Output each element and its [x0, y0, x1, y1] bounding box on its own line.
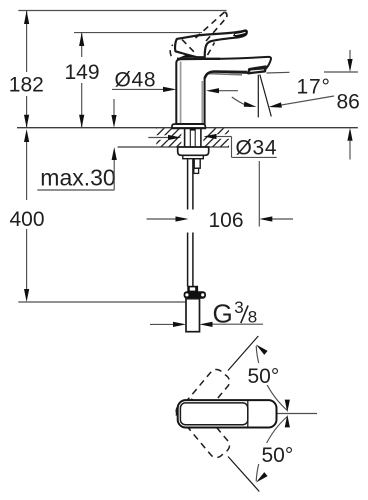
svg-text:Ø34: Ø34 — [236, 137, 278, 160]
svg-text:max.30: max.30 — [40, 165, 115, 191]
dim 48 leader with arrow right — [112, 87, 176, 92]
svg-text:8: 8 — [248, 307, 257, 326]
countertop surface line — [17, 127, 358, 129]
under-head shadow wedge — [179, 55, 197, 58]
plan view rotation arc lower — [256, 415, 290, 483]
lever tip highlight — [235, 32, 245, 34]
svg-text:86: 86 — [337, 91, 360, 114]
svg-text:50°: 50° — [262, 444, 294, 467]
label 50 degrees upper — [246, 363, 281, 388]
17 degree arc with arrow — [232, 97, 257, 107]
dimension 149 vertical line — [79, 33, 84, 128]
svg-text:Ø48: Ø48 — [115, 69, 157, 92]
hose end connector black collar — [184, 286, 206, 299]
plan view upper 50 degree ray — [228, 336, 258, 371]
mounting nut — [178, 147, 209, 155]
solid handle plan view — [178, 400, 277, 427]
max.30 dimension arrows — [111, 99, 116, 190]
spout underside accent — [205, 72, 247, 79]
supply hose upper segment — [188, 159, 193, 210]
dimension 106 left arrow — [147, 216, 189, 221]
G 3/8 dimension arrows — [150, 322, 263, 327]
mounting base plate — [172, 124, 205, 128]
17 degree leader with arrow — [269, 96, 334, 108]
svg-text:3: 3 — [234, 298, 243, 317]
aerator — [248, 67, 266, 74]
dashed lever open position — [170, 12, 227, 56]
lever tip dark fill — [233, 31, 247, 38]
svg-text:149: 149 — [65, 61, 100, 84]
svg-text:182: 182 — [9, 74, 44, 97]
supply hose lower segment — [188, 233, 193, 287]
dimension 106 right arrow — [259, 161, 293, 227]
dim 34 left arrow — [148, 135, 181, 140]
svg-text:106: 106 — [209, 209, 244, 232]
svg-text:400: 400 — [10, 208, 45, 231]
extension line bottom (400 level) — [18, 301, 186, 303]
hatched counter section left — [137, 128, 196, 148]
dim 34 right arrow and leader — [203, 134, 276, 158]
G 3/8 threaded end tube — [186, 299, 200, 332]
extension line lever top (149 level) — [74, 32, 202, 34]
svg-text:50°: 50° — [248, 365, 280, 388]
dimension 400 vertical line — [24, 129, 29, 302]
extension line top (182 level) — [18, 10, 226, 12]
body shading lines — [181, 62, 242, 124]
plan view rotation arc upper — [256, 345, 290, 413]
hatched counter section right — [196, 128, 247, 148]
17 degree vertical reference line — [257, 75, 259, 118]
lever solid — [175, 31, 247, 58]
dashed handle rotated down 50 — [173, 396, 232, 460]
dashed handle rotated up 50 — [173, 367, 232, 431]
label G 3/8 — [213, 298, 258, 329]
max.30 leader underline — [37, 189, 114, 191]
17 degree slanted spray line — [260, 75, 272, 117]
dim 48 right arrow — [206, 88, 238, 93]
cartridge cap line — [177, 58, 220, 60]
faucet body and spout outline — [176, 57, 271, 124]
second hose stub — [194, 159, 200, 174]
dimension 86 upper extension segments — [267, 72, 359, 73]
nut lower collar — [183, 155, 204, 158]
threaded shank through counter — [185, 128, 201, 147]
dimension 182 vertical line — [24, 11, 29, 128]
svg-text:G: G — [213, 299, 233, 329]
dimension 86 arrows — [347, 50, 352, 160]
handle axis extension line — [277, 413, 318, 415]
plan view lower 50 degree ray — [228, 457, 259, 492]
svg-text:17°: 17° — [297, 76, 331, 99]
counter underside line — [118, 146, 230, 148]
label 50 degrees lower — [258, 443, 298, 467]
